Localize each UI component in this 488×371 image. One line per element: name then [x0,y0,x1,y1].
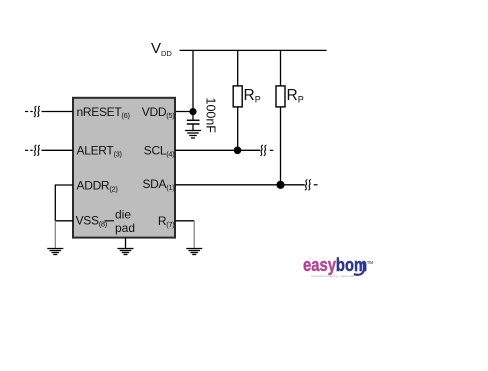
junction dot VDD/C1 [189,108,196,115]
wire R7 stub and down [175,220,194,222]
svg-text:pad: pad [115,221,135,235]
logo easybom [303,254,373,278]
svg-text:made easy: made easy [340,274,355,278]
svg-text:component sourcing: component sourcing [311,274,338,278]
ground (VSS left) [47,249,63,255]
dash SCL [270,149,274,151]
dash SDA [314,184,318,186]
ground (capacitor) [185,131,201,139]
resistor R2 [276,50,285,184]
capacitor C1 100nF [187,115,200,131]
ground (die pad center) [118,249,134,255]
IC U1 body [73,98,175,238]
svg-text:TM: TM [367,260,374,265]
svg-text:easybom: easybom [303,254,367,275]
die pad tie line [105,220,115,222]
svg-text:die: die [115,207,131,221]
wire VDD pin stub [176,111,193,113]
dash ALERT [25,149,28,151]
break squiggle nRESET [34,106,40,117]
wire VDD rail [180,49,327,51]
break squiggle SCL [260,145,266,156]
ground (R7) [186,249,202,255]
break squiggle ALERT [34,145,40,156]
svg-text:VDD: VDD [151,40,172,58]
wire center ground stem [125,238,127,249]
wire VSS ground stem [54,221,56,249]
wire SDA [175,184,305,186]
dash nRESET [25,111,28,113]
svg-text:RP: RP [244,87,261,105]
wire VDD vertical drop to pin 5 [192,50,194,111]
resistor R1 [233,50,242,150]
wire VSS stub [55,220,73,222]
wire ALERT stub [42,149,74,151]
wire SCL [175,149,260,151]
svg-text:100nF: 100nF [204,98,218,134]
junction dot SDA/R2 [276,181,284,189]
wire R7 ground stem [193,221,195,248]
wire ADDR stub and down [55,185,73,221]
junction dot SCL/R1 [234,147,242,155]
break squiggle SDA [305,180,311,191]
svg-text:RP: RP [287,87,304,105]
wire nRESET stub [42,111,74,113]
